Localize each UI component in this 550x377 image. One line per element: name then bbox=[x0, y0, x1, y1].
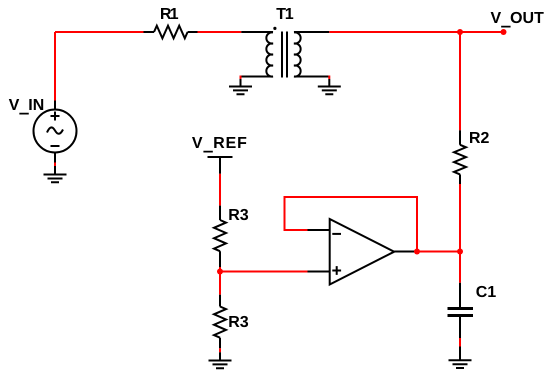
wire R1 to T1 bbox=[198, 31, 242, 33]
transformer T1 secondary winding bbox=[294, 32, 329, 77]
wire V_OUT node down to R2 bbox=[459, 32, 461, 130]
node V_OUT terminal dot bbox=[501, 29, 507, 35]
resistor R3 (lower) bbox=[214, 295, 226, 349]
wire R3 ground stem bbox=[219, 352, 221, 360]
label R3 (upper) bbox=[229, 209, 248, 220]
wire primary ground stem bbox=[240, 79, 242, 87]
label V_IN bbox=[9, 99, 43, 115]
wire feedback loop bbox=[285, 197, 418, 252]
ground (C1) bbox=[449, 360, 472, 368]
wire junction down to R3 lower bbox=[219, 272, 221, 295]
wire stub R3 to ground bbox=[219, 348, 221, 352]
ground (T1 secondary) bbox=[318, 87, 341, 95]
label R3 (lower) bbox=[229, 316, 248, 327]
label R2 bbox=[470, 132, 489, 143]
wire divider junction to op-amp + input bbox=[220, 271, 308, 273]
wire stub V_IN to ground bbox=[54, 163, 56, 167]
wire V_IN vertical bbox=[54, 32, 56, 101]
wire T1 secondary to V_OUT bbox=[329, 31, 503, 33]
node V_REF terminal bar bbox=[208, 156, 233, 158]
label R1 bbox=[161, 8, 178, 19]
wire R2 to output node bbox=[459, 184, 461, 283]
ground (R3 divider) bbox=[209, 361, 232, 369]
op-amp U1 bbox=[308, 219, 418, 285]
transformer T1 primary winding bbox=[241, 32, 274, 77]
wire R3 to junction bbox=[219, 267, 221, 272]
wire secondary ground stem bbox=[328, 79, 330, 87]
wire C1 ground stem bbox=[459, 347, 461, 361]
wire stub primary to ground bbox=[240, 76, 242, 80]
resistor R1 bbox=[144, 26, 198, 39]
label V_OUT bbox=[491, 12, 544, 28]
transformer T1 phase dot bbox=[273, 27, 276, 30]
node junction at top of R2 bbox=[457, 29, 463, 35]
wire stub secondary to ground bbox=[328, 76, 330, 80]
wire op-amp output to node bbox=[417, 251, 460, 253]
node junction op-amp output / C1 bbox=[457, 249, 463, 255]
label V_REF bbox=[192, 137, 246, 153]
wire V_REF stem bbox=[219, 157, 221, 174]
voltage source V_IN bbox=[34, 101, 77, 163]
ground (V_IN) bbox=[44, 175, 67, 183]
node junction op-amp output bbox=[414, 249, 420, 255]
wire V_REF to R3 bbox=[219, 174, 221, 206]
resistor R2 bbox=[454, 130, 466, 184]
wire top net: V_IN corner to R1 bbox=[55, 31, 144, 33]
wire stub C1 to ground bbox=[459, 338, 461, 347]
label T1 bbox=[276, 8, 293, 19]
wire V_IN ground stem bbox=[54, 166, 56, 175]
resistor R3 (upper) bbox=[214, 206, 226, 267]
capacitor C1 bbox=[448, 283, 474, 338]
transformer T1 core bbox=[282, 32, 287, 78]
label C1 bbox=[476, 286, 495, 297]
ground (T1 primary) bbox=[229, 87, 252, 95]
node junction R3 divider bbox=[217, 269, 223, 275]
